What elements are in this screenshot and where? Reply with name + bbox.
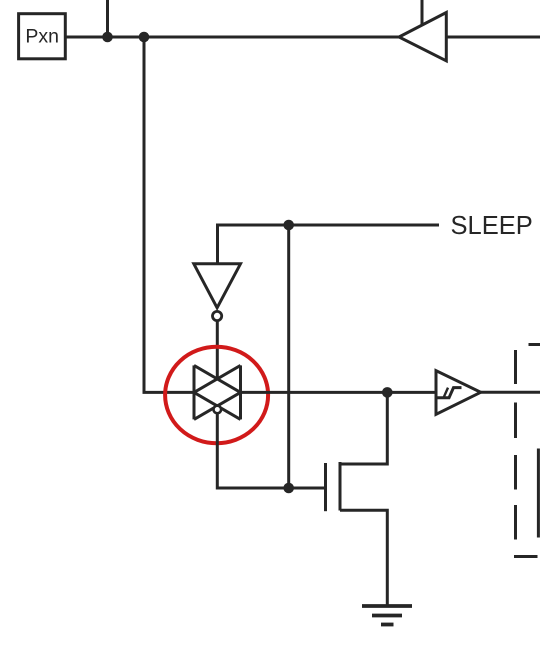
transmission gate T1 xyxy=(194,365,241,419)
wire: transmission gate output to schmitt input xyxy=(241,391,437,394)
dashed module boundary box xyxy=(514,345,540,557)
pin box Pxn xyxy=(19,14,66,59)
wire: buffer input from right edge xyxy=(446,36,540,39)
node: junction pad/top xyxy=(102,32,113,43)
wire: long vertical to transmission gate input xyxy=(144,37,194,392)
transistor Q1 (nmos) gate bar xyxy=(324,463,327,511)
wire: SLEEP control vertical xyxy=(287,225,290,488)
inverter U2 xyxy=(194,264,241,308)
transmission gate bubble xyxy=(214,406,222,414)
wire: upper branch to top edge xyxy=(106,0,109,37)
wire: component inside dashed box (clipped at edge) xyxy=(537,449,540,538)
node: gate junction xyxy=(283,483,294,494)
svg-text:Pxn: Pxn xyxy=(25,26,59,48)
wire: transmission gate bottom to mosfet gate xyxy=(217,413,325,488)
wire: schmitt output to right edge xyxy=(481,391,540,394)
schmitt trigger U3 xyxy=(436,371,481,415)
wire: inverter out to transmission gate xyxy=(216,321,219,379)
node: SLEEP branch xyxy=(283,220,294,231)
svg-text:SLEEP: SLEEP xyxy=(451,212,533,240)
ground xyxy=(362,606,412,625)
wire: Pxn pad to output buffer xyxy=(65,36,400,39)
node: junction pad/input path xyxy=(139,32,150,43)
node: drain junction xyxy=(382,387,393,398)
transistor Q1 channel bar xyxy=(339,462,342,511)
red highlight circle xyxy=(165,347,268,443)
wire SLEEP xyxy=(218,225,440,264)
inverter bubble xyxy=(213,311,222,320)
wire: drain up to schmitt input line xyxy=(340,392,387,464)
wire: buffer enable from top edge xyxy=(421,0,424,25)
wire: source down to ground xyxy=(340,510,387,606)
op-amp U1 output driver buffer (left-pointing) xyxy=(399,13,446,61)
schmitt hysteresis glyph xyxy=(438,388,462,398)
